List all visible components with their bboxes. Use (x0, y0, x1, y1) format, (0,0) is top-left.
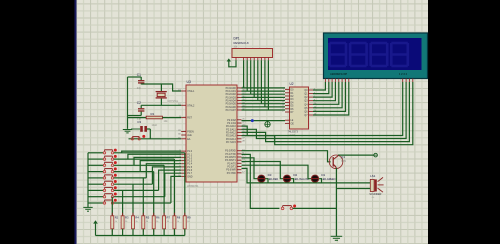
keypad left rail (87, 153, 89, 207)
LED D3 (258, 173, 279, 182)
svg-text:U2: U2 (290, 82, 294, 86)
wire D3 to rail (265, 179, 268, 183)
wire P3.5 to cathode rail (242, 168, 371, 183)
svg-text:~1k: ~1k (371, 197, 374, 199)
svg-text:GND: GND (187, 175, 193, 178)
wire P3.0 to Q1 base (242, 151, 331, 162)
resistor R7 (163, 213, 171, 232)
svg-text:LED-GREEN: LED-GREEN (321, 178, 335, 181)
wire sounder lower pin to emitter line (336, 188, 370, 190)
wires keypad rows to pull resistors (112, 153, 185, 216)
svg-text:XTAL1: XTAL1 (187, 90, 195, 93)
keypad button SW8 (88, 193, 117, 198)
svg-text:R1: R1 (151, 112, 155, 116)
svg-text:AT89C51: AT89C51 (187, 184, 199, 188)
wire P3.3 to LED D2 (242, 162, 284, 179)
ground rail (xtal cluster) (127, 77, 129, 128)
svg-text:R3: R3 (125, 216, 129, 220)
wire D1 to rail (319, 179, 322, 183)
svg-text:33p: 33p (137, 86, 142, 90)
svg-text:LED-RED: LED-RED (268, 178, 279, 181)
svg-text:R8: R8 (177, 216, 181, 220)
U2 right pins (304, 89, 317, 117)
wire C2 to rail (128, 115, 142, 117)
keypad button SW9 (88, 199, 117, 204)
svg-text:74LS373: 74LS373 (288, 130, 299, 134)
svg-text:OE: OE (291, 123, 295, 125)
svg-text:R9: R9 (187, 216, 191, 220)
keypad row wires to U3 P1 (114, 151, 185, 203)
wires DP1 to P0 bus (244, 60, 269, 110)
keypad button SW6 (88, 180, 117, 185)
power terminal (pull rail) (93, 220, 98, 235)
display digits (330, 43, 408, 66)
resistor R6 (152, 213, 160, 232)
resistor R5 (142, 213, 150, 232)
ground (Q1 emitter) (331, 236, 343, 240)
resistor R3 (121, 213, 129, 232)
U2 left pins (282, 88, 294, 125)
keypad button SW2 (88, 155, 117, 160)
wire D2 to rail (291, 179, 294, 183)
P0 bus wires U3 to U2 (242, 88, 286, 110)
sounder LS1 (369, 174, 383, 199)
svg-text:R2: R2 (115, 216, 119, 220)
U3 right pin stubs and names (225, 87, 245, 175)
wire XTAL1 net (141, 84, 181, 91)
keypad button SW5 (88, 174, 117, 179)
svg-text:XTAL2: XTAL2 (187, 104, 195, 107)
LED D2 (283, 173, 309, 182)
ground (xtal cluster) (123, 128, 132, 133)
svg-text:R7: R7 (167, 216, 171, 220)
keypad button SW4 (88, 167, 117, 172)
keypad button SW3 (88, 161, 117, 166)
svg-text:C2: C2 (137, 101, 141, 105)
svg-text:LED-YELLOW: LED-YELLOW (293, 178, 309, 181)
svg-text:U3: U3 (187, 80, 191, 84)
svg-text:RESPACK-8: RESPACK-8 (234, 41, 250, 45)
window edge (75, 0, 77, 244)
resistor R8 (173, 213, 181, 232)
wire P3.4 to LED D1 (242, 165, 312, 179)
svg-text:NPN: NPN (341, 160, 346, 163)
svg-text:ALE: ALE (187, 134, 192, 137)
junction dot (251, 119, 254, 122)
svg-text:R6: R6 (156, 216, 160, 220)
svg-text:CRYSTAL: CRYSTAL (167, 100, 178, 103)
svg-text:DP1: DP1 (234, 37, 240, 41)
wires U2 to display segments (313, 82, 349, 115)
LED D1 (311, 173, 335, 182)
svg-text:LE: LE (291, 120, 294, 122)
capacitor C3 (131, 120, 158, 132)
bottom rail wire (96, 229, 185, 236)
svg-text:1 2 3 4: 1 2 3 4 (399, 72, 407, 76)
ground terminal at U2 (265, 121, 270, 127)
push button (bottom) (281, 205, 296, 210)
svg-text:D1: D1 (321, 173, 325, 177)
terminal marker at collector (374, 153, 378, 157)
crystal X1 (156, 84, 179, 105)
resistor R9 (183, 213, 191, 232)
svg-text:D2: D2 (293, 173, 297, 177)
resistor R2 (111, 213, 119, 232)
ground (keypad) (83, 207, 92, 211)
DP1 pin ticks (236, 58, 268, 61)
svg-text:P2.7/A15: P2.7/A15 (226, 141, 237, 144)
wire Q1 emitter to ground (335, 168, 337, 236)
svg-text:C1: C1 (137, 73, 141, 77)
svg-text:EA: EA (187, 138, 191, 141)
wire P3.1 to bottom button (242, 154, 280, 208)
svg-text:ABCDEFG DP: ABCDEFG DP (330, 72, 347, 76)
resistor R4 (132, 213, 140, 232)
svg-text:SOUNDER: SOUNDER (369, 193, 381, 196)
svg-text:LS1: LS1 (370, 174, 376, 178)
wire button to Q1 ground line (293, 207, 337, 209)
wire U3 P2.0 to U2 LE (242, 120, 286, 122)
capacitor C1 (137, 73, 145, 90)
svg-text:C3: C3 (137, 120, 141, 124)
wire EA net (129, 138, 182, 140)
display LCD1 4-digit 7-seg (324, 33, 428, 79)
push button SW reset (131, 135, 145, 140)
resistor pack DP1 RESPACK-8 (232, 37, 273, 58)
wire P3.2 to LED D3 (242, 158, 258, 179)
svg-text:RST: RST (187, 117, 192, 120)
svg-text:R5: R5 (146, 216, 150, 220)
mcu U3 AT89C51 (186, 80, 237, 188)
svg-text:R4: R4 (135, 216, 139, 220)
transistor Q1 NPN (329, 155, 346, 169)
wire Q1 collector to terminal (339, 154, 375, 156)
keypad button SW1 (88, 149, 117, 154)
U3 left pin stubs and names (178, 90, 195, 179)
keypad button SW7 (88, 186, 117, 191)
capacitor C2 (137, 101, 145, 120)
wires display digit pins to U3 P2 (242, 82, 413, 145)
wire C3 to EA net (149, 129, 151, 139)
latch U2 74LS373 (288, 82, 309, 136)
power terminal for DP1 (227, 58, 236, 66)
svg-text:P0.7/AD7: P0.7/AD7 (226, 109, 237, 112)
svg-text:P3.7/RD: P3.7/RD (227, 172, 236, 175)
wire C1 top to ground rail (128, 76, 142, 78)
resistor R1 (128, 112, 182, 123)
display segment pin ticks (325, 79, 412, 83)
svg-text:10uF: 10uF (152, 124, 158, 127)
svg-text:D3: D3 (268, 173, 272, 177)
wire XTAL2 net (141, 104, 181, 106)
